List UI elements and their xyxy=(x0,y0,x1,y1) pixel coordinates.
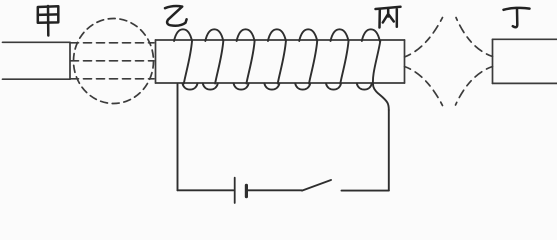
coil L1 turn 2 top arc xyxy=(205,29,223,41)
battery B1 negative plate (short) xyxy=(245,185,248,196)
label BING right vertical xyxy=(396,9,399,27)
wire battery to switch xyxy=(248,189,302,191)
core bar YI-BING bottom edge xyxy=(156,82,405,84)
coil L1 turn 1 top arc xyxy=(174,29,192,41)
field line top-right arc at pole DING xyxy=(456,18,493,57)
label BING left vertical xyxy=(378,10,381,28)
coil L1 turn 3 bottom curl xyxy=(234,84,249,90)
battery B1 positive plate (long) xyxy=(234,178,236,203)
coil L1 turn 4 top arc xyxy=(268,29,286,41)
coil L1 turn 4 bottom curl xyxy=(264,84,279,90)
hidden bar bottom dashed line xyxy=(71,78,155,80)
coil L1 turn 7 top arc xyxy=(362,29,380,41)
coil L1 turn 2 bottom curl xyxy=(203,84,218,90)
coil L1 turn 4 front stroke xyxy=(278,41,286,84)
iron bar DING bottom edge xyxy=(493,82,557,84)
label BING right diagonal xyxy=(389,15,394,22)
switch S1 right contact wire xyxy=(342,190,389,192)
coil L1 turn 1 bottom curl xyxy=(183,84,198,90)
wire left lead from coil xyxy=(177,84,179,190)
field line top-left arc at pole BING xyxy=(405,18,443,58)
label BING (third) top stroke xyxy=(376,7,401,9)
label DING (fourth) top stroke xyxy=(504,8,530,10)
iron bar DING top edge xyxy=(493,38,557,40)
label JIA middle horizontal xyxy=(38,13,59,16)
iron bar JIA top edge xyxy=(3,41,71,43)
dashed field circle around gap JIA-YI xyxy=(74,19,154,104)
switch S1 blade (open) xyxy=(302,180,331,191)
wire bottom left segment to battery xyxy=(178,189,234,191)
label JIA center vertical stem xyxy=(47,6,50,36)
coil L1 turn 5 front stroke xyxy=(309,41,317,84)
label DING vertical stem with hook xyxy=(513,9,518,27)
coil L1 turn 5 bottom curl xyxy=(295,84,310,90)
core bar YI-BING left end edge xyxy=(155,40,157,83)
core bar YI-BING right end edge (pole face) xyxy=(404,40,406,83)
label BING left diagonal xyxy=(383,15,388,23)
coil L1 turn 2 front stroke xyxy=(215,41,223,84)
hidden bar axis dashed line xyxy=(71,60,155,62)
coil L1 turn 6 top arc xyxy=(331,29,349,41)
core bar YI-BING top edge xyxy=(156,39,405,41)
wire right lead from coil xyxy=(388,110,390,190)
field line bottom-right arc at pole DING xyxy=(456,67,493,106)
coil L1 turn 6 front stroke xyxy=(340,41,348,84)
coil L1 turn 1 front stroke xyxy=(184,41,192,84)
coil L1 turn 7 bottom curl xyxy=(357,84,372,90)
coil L1 turn 6 bottom curl xyxy=(326,84,341,90)
coil L1 turn 3 front stroke xyxy=(246,41,254,84)
iron bar JIA bottom edge xyxy=(3,78,71,80)
coil L1 turn 3 top arc xyxy=(237,29,255,41)
iron bar JIA right end edge xyxy=(69,42,71,79)
hidden bar top dashed line xyxy=(71,42,155,44)
coil L1 final turn descending into right lead xyxy=(373,41,389,110)
coil L1 turn 5 top arc xyxy=(299,29,317,41)
label JIA (first) character box xyxy=(38,6,59,23)
label YI (second) character xyxy=(165,6,187,26)
field line bottom-left arc at pole BING xyxy=(405,67,443,106)
label BING center vertical xyxy=(387,9,390,17)
iron bar DING left end edge (pole face) xyxy=(492,39,494,83)
